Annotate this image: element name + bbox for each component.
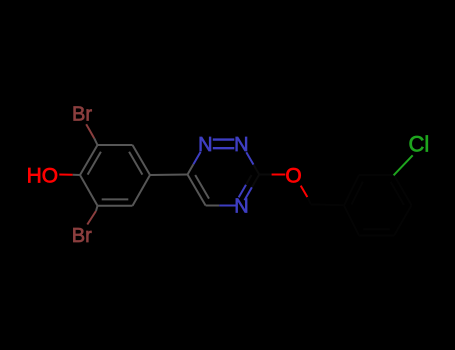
right ring C4-C5 bond [394,205,412,235]
svg-text:Br: Br [72,225,92,247]
right ring C1-C2 bond [344,175,359,205]
N1=N2 bond lower line [213,147,235,149]
right ring C2-C3 bond [359,174,394,176]
N1-C6 bond blue part [193,152,200,164]
C3-O bond red part [272,174,286,176]
benzene C4-C5 bond [133,175,151,206]
right ring C3=C4 inner line [391,182,404,205]
benzene C3=C4 inner line [129,152,142,175]
right ring C6-C1 bond [344,205,359,235]
C5-N4 bond blue half [219,205,236,207]
C3-Cl bond [394,155,413,175]
benzene C3-C4 bond [133,145,151,175]
benzene C1-C2 bond [80,145,98,175]
N1=N2 bond upper line [213,138,235,140]
O-CH2 bond dark part [307,197,311,204]
C6=C5 bond main line [188,175,206,206]
N4=C3 inner line blue part [239,185,246,198]
benzene C2-C3 bond [98,144,133,146]
benzene C5-C6 bond [98,205,133,207]
O-C1 bond gray half [73,174,80,176]
N4=C3 inner line dark part [246,175,252,185]
N1-C6 bond gray part [188,164,194,174]
C6-Br2 bond maroon part [87,211,96,225]
svg-text:N: N [234,196,248,218]
benzene C5=C6 inner line [102,198,129,200]
right ring C1=C2 inner line [352,182,363,205]
benzene C4 - triazine C6 bond [150,174,188,177]
right ring C5-C6 bond [359,235,394,237]
N4=C3 main line blue part [245,187,252,200]
N2-C3 bond blue part [246,152,253,164]
svg-text:Br: Br [72,104,92,126]
C2-Br1 bond gray part [94,138,97,145]
svg-text:O: O [285,164,301,187]
svg-text:Cl: Cl [409,132,430,157]
C2-Br1 bond maroon part [86,124,94,138]
N4=C3 main line dark part [252,175,259,188]
svg-text:HO: HO [27,164,58,187]
O-C1 bond red half [59,174,72,176]
C6-Br2 bond gray part [96,206,98,211]
right ring C5=C6 inner line [363,228,390,230]
right ring C3-C4 bond [394,175,412,205]
benzene C1=C2 inner line [88,152,101,175]
O-CH2 bond red part [301,186,308,198]
N2-C3 bond dark part [254,165,260,175]
C6=C5 inner line [195,175,209,199]
benzene C6-C1 bond [80,175,98,206]
CH2-C1 bond [311,203,344,206]
C5-N4 bond gray half [206,205,220,207]
C3-O bond dark part [259,174,271,176]
